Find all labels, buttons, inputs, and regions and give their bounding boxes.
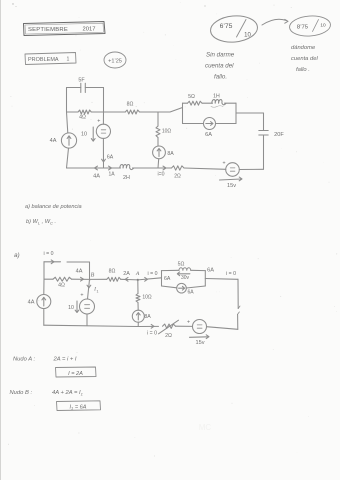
svg-text:+: + bbox=[80, 293, 83, 299]
wire cap loop right vertical bbox=[103, 88, 105, 113]
resistor 8ohm bbox=[125, 102, 139, 115]
svg-text:20F: 20F bbox=[274, 132, 284, 138]
current arrow i=0 bottom c2 bbox=[138, 324, 158, 336]
svg-text:B: B bbox=[91, 273, 95, 279]
voltage source 10V c2 bbox=[68, 279, 94, 325]
grade bubble +1'25 bbox=[104, 52, 126, 68]
current arrow i=0 toward box bbox=[138, 271, 162, 281]
boxed result I = 2A bbox=[56, 367, 97, 377]
svg-text:a): a) bbox=[14, 252, 20, 259]
svg-text:SEPTIEMBRE: SEPTIEMBRE bbox=[28, 27, 68, 33]
problem box PROBLEMA 1 bbox=[25, 53, 76, 65]
svg-text:Nudo B :: Nudo B : bbox=[10, 390, 33, 396]
equation node A bbox=[13, 357, 77, 363]
current source 4A left c2 bbox=[28, 279, 51, 325]
svg-text:10Ω: 10Ω bbox=[142, 295, 152, 301]
svg-text:8A: 8A bbox=[144, 314, 151, 320]
bottom wire mid segment bbox=[133, 167, 159, 169]
resistor 2ohm bottom bbox=[158, 166, 184, 180]
svg-text:i = 0: i = 0 bbox=[147, 331, 157, 337]
svg-text:4A: 4A bbox=[50, 138, 57, 144]
arrow grade correction bbox=[262, 19, 287, 25]
svg-text:fallo .: fallo . bbox=[296, 67, 310, 73]
svg-text:15v: 15v bbox=[195, 340, 204, 346]
svg-text:1: 1 bbox=[97, 290, 99, 294]
capacitor 20F right bbox=[259, 113, 285, 169]
svg-text:2H: 2H bbox=[123, 175, 130, 181]
svg-text:MC: MC bbox=[199, 423, 212, 432]
svg-text:8A: 8A bbox=[167, 151, 174, 157]
svg-text:i=0: i=0 bbox=[157, 172, 164, 178]
svg-text:5F: 5F bbox=[78, 78, 85, 84]
svg-text:4A + 2A = I1: 4A + 2A = I1 bbox=[52, 390, 83, 397]
svg-text:i = 0: i = 0 bbox=[44, 251, 54, 257]
right branch with open break c2 bbox=[237, 279, 240, 329]
equation node B bbox=[10, 390, 83, 397]
svg-text:A: A bbox=[135, 271, 140, 277]
inductor 1H block bbox=[202, 94, 236, 108]
grade bubble 6'75/10 bbox=[209, 14, 258, 44]
wire box2 to right branch, i=0 bbox=[205, 271, 238, 280]
svg-text:a) balance de potencia: a) balance de potencia bbox=[25, 204, 82, 210]
svg-text:30v: 30v bbox=[181, 275, 190, 281]
resistor 8ohm c2 bbox=[90, 269, 138, 282]
svg-text:10: 10 bbox=[68, 305, 74, 311]
svg-text:PROBLEMA: PROBLEMA bbox=[28, 57, 59, 63]
svg-text:8Ω: 8Ω bbox=[127, 102, 134, 108]
bottom wire to source bbox=[184, 168, 226, 169]
label 2A and node A bbox=[123, 271, 140, 281]
box right vertical bbox=[235, 103, 237, 123]
grade bubble 8'75/10 bbox=[289, 15, 331, 38]
svg-text:2Ω: 2Ω bbox=[174, 174, 181, 180]
resistor 5ohm c2 bbox=[162, 261, 206, 270]
svg-text:b) WL , WC .: b) WL , WC . bbox=[26, 219, 56, 225]
svg-text:2A: 2A bbox=[123, 271, 130, 277]
current arrow 4A left bbox=[93, 166, 100, 179]
svg-text:6’75: 6’75 bbox=[220, 23, 233, 30]
svg-text:cuenta del: cuenta del bbox=[205, 63, 234, 70]
wire block to cap bbox=[236, 112, 264, 114]
svg-text:5Ω: 5Ω bbox=[188, 94, 195, 100]
svg-text:cuenta del: cuenta del bbox=[291, 56, 318, 62]
current source 4A left bbox=[50, 112, 77, 168]
voltage source 15V bbox=[220, 161, 264, 190]
svg-text:4A: 4A bbox=[28, 300, 35, 306]
svg-text:Sin darme: Sin darme bbox=[206, 52, 235, 59]
label 30V with left arrow bbox=[177, 272, 190, 281]
open branch i=0 top (cap removed) bbox=[44, 251, 90, 279]
resistor 4ohm c2 bbox=[44, 277, 90, 288]
current arrow 4A right c2 bbox=[76, 269, 84, 282]
scan speck top left bbox=[12, 3, 205, 7]
svg-text:Nudo A :: Nudo A : bbox=[13, 357, 36, 363]
resistor 5ohm block bbox=[183, 94, 203, 105]
svg-text:fallo.: fallo. bbox=[214, 74, 227, 81]
current arrow 6A down bbox=[102, 155, 114, 163]
current source 6A block bbox=[183, 118, 237, 139]
wire main top mid segment bbox=[91, 111, 125, 113]
middle branch: resistor 10ohm bbox=[156, 112, 171, 138]
svg-text:1: 1 bbox=[67, 57, 70, 63]
svg-text:10: 10 bbox=[320, 23, 326, 29]
svg-text:+: + bbox=[97, 119, 100, 125]
title box SEPTIEMBRE 2017 bbox=[24, 22, 106, 36]
svg-text:I = 2A: I = 2A bbox=[68, 371, 83, 377]
svg-text:4Ω: 4Ω bbox=[79, 115, 86, 121]
svg-text:2017: 2017 bbox=[83, 27, 96, 33]
middle branch c2: resistor 10ohm bbox=[136, 280, 152, 303]
box2 left vertical bbox=[161, 271, 163, 286]
voltage source 10V (circle =) bbox=[96, 112, 110, 168]
wire cap loop top left bbox=[67, 87, 81, 89]
svg-text:1H: 1H bbox=[213, 94, 220, 100]
svg-text:6A: 6A bbox=[207, 268, 214, 274]
wire main top left segment bbox=[67, 111, 79, 113]
current source 8A mid bbox=[153, 138, 175, 169]
label 10 with down arrow bbox=[81, 127, 95, 141]
right block: box left vertical bbox=[182, 103, 184, 123]
svg-text:+: + bbox=[222, 161, 225, 167]
note dandome cuenta del fallo bbox=[291, 45, 318, 73]
current arrow 1A right bbox=[108, 166, 115, 177]
current source 8A c2 bbox=[132, 303, 151, 327]
svg-text:I1 = 6A: I1 = 6A bbox=[69, 404, 86, 410]
svg-text:i = 0: i = 0 bbox=[148, 271, 158, 277]
svg-text:+: + bbox=[187, 320, 190, 326]
note sin darme cuenta del fallo bbox=[205, 52, 235, 81]
current arrow i=0 right at bottom junction bbox=[157, 166, 166, 177]
svg-text:6A: 6A bbox=[187, 290, 194, 296]
svg-text:5Ω: 5Ω bbox=[178, 261, 185, 267]
svg-text:1A: 1A bbox=[108, 172, 115, 178]
svg-text:10: 10 bbox=[244, 33, 251, 39]
wire cap loop top right bbox=[85, 87, 103, 89]
inductor 2H bbox=[120, 165, 134, 181]
resistor 4ohm top bbox=[78, 110, 91, 121]
current source 6A c2 bbox=[162, 283, 206, 295]
wire main top right segment bbox=[140, 108, 183, 113]
bottom wire left segment bbox=[67, 167, 121, 169]
svg-text:+1’25: +1’25 bbox=[108, 58, 122, 64]
wire cap loop left vertical bbox=[66, 88, 68, 113]
svg-text:6A: 6A bbox=[164, 276, 171, 282]
svg-text:6A: 6A bbox=[205, 132, 212, 138]
svg-text:10: 10 bbox=[81, 132, 87, 138]
svg-text:4A: 4A bbox=[76, 269, 83, 275]
bottom wire c2 left bbox=[44, 325, 138, 326]
svg-text:15v: 15v bbox=[227, 183, 236, 189]
node B bbox=[87, 273, 99, 294]
voltage source 15V c2 bbox=[176, 320, 238, 347]
boxed result I1 = 6A bbox=[57, 401, 101, 411]
svg-text:4Ω: 4Ω bbox=[58, 283, 65, 289]
resistor 2ohm crossed out c2 bbox=[159, 320, 179, 339]
svg-text:6A: 6A bbox=[107, 155, 114, 161]
svg-text:4A: 4A bbox=[93, 174, 100, 180]
svg-text:10Ω: 10Ω bbox=[162, 129, 172, 135]
svg-text:8’75: 8’75 bbox=[297, 25, 309, 31]
svg-text:2A = i + I: 2A = i + I bbox=[53, 357, 77, 363]
svg-text:8Ω: 8Ω bbox=[109, 269, 116, 275]
svg-text:i = 0: i = 0 bbox=[226, 271, 236, 277]
svg-text:dándome: dándome bbox=[291, 45, 316, 51]
box2 right vertical bbox=[204, 271, 206, 286]
svg-text:2Ω: 2Ω bbox=[165, 333, 172, 339]
capacitor 5F bbox=[78, 78, 85, 93]
